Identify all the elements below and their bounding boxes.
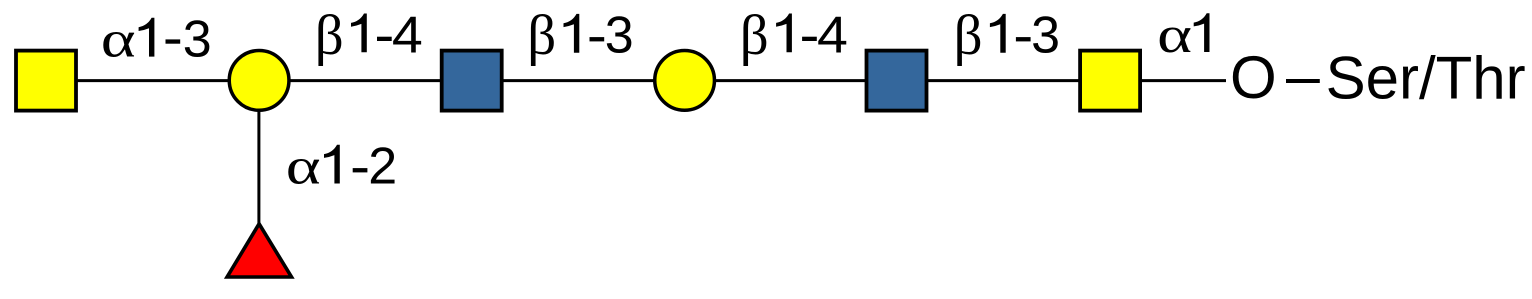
GalNAc yellow square core <box>1080 51 1140 111</box>
wire bond GalNAc-Gal <box>46 79 259 82</box>
wire bond GalNAc-O <box>1110 79 1227 82</box>
svg-text:α: α <box>101 10 136 67</box>
GalNAc yellow square terminal <box>16 51 76 111</box>
svg-text:4: 4 <box>817 6 848 64</box>
wire bond GlcNAc-Gal <box>472 79 685 82</box>
svg-text:4: 4 <box>392 6 423 64</box>
wire bond Gal-GlcNAc <box>259 79 471 82</box>
wire bond GlcNAc2-GalNAc <box>897 79 1109 82</box>
svg-text:β: β <box>315 4 344 67</box>
GlcNAc blue square 1 <box>442 51 502 111</box>
svg-text:β: β <box>527 4 556 67</box>
label alpha1 <box>1157 6 1209 63</box>
svg-text:β: β <box>954 4 983 67</box>
Gal yellow circle 2 <box>655 51 715 111</box>
svg-text:Ser/Thr: Ser/Thr <box>1326 44 1526 111</box>
svg-text:3: 3 <box>1031 7 1060 65</box>
label beta1-3 a <box>527 4 633 67</box>
wire bond Gal-GlcNAc2 <box>684 79 897 82</box>
label beta1-4 b <box>740 4 848 67</box>
wire bond Gal-Fuc vertical <box>257 81 260 224</box>
label beta1-3 b <box>954 4 1060 67</box>
svg-text:3: 3 <box>183 11 212 69</box>
label beta1-4 a <box>315 4 423 67</box>
svg-text:3: 3 <box>605 7 634 65</box>
svg-text:α: α <box>286 137 321 194</box>
svg-text:2: 2 <box>368 138 397 196</box>
svg-text:α: α <box>1157 6 1192 63</box>
svg-text:β: β <box>740 4 769 67</box>
label alpha1-3 <box>101 10 212 68</box>
Gal yellow circle 1 <box>229 51 289 111</box>
GlcNAc blue square 2 <box>867 51 927 111</box>
Fuc red triangle <box>227 224 291 277</box>
svg-text:O: O <box>1230 44 1277 111</box>
dash O-Ser <box>1286 79 1320 83</box>
label alpha1-2 <box>286 137 397 195</box>
